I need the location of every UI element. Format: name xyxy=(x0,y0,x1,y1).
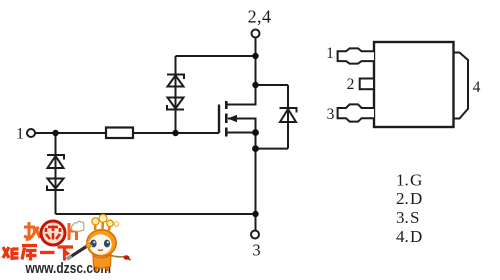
svg-text:2,4: 2,4 xyxy=(248,7,272,27)
svg-text:3.: 3. xyxy=(396,208,409,227)
svg-text:1: 1 xyxy=(326,45,334,62)
svg-text:S: S xyxy=(410,208,419,227)
svg-text:4.: 4. xyxy=(396,227,409,246)
svg-text:1: 1 xyxy=(16,125,24,142)
svg-text:2.: 2. xyxy=(396,189,409,208)
svg-text:3: 3 xyxy=(327,106,335,123)
svg-text:D: D xyxy=(410,227,422,246)
svg-text:G: G xyxy=(410,170,422,189)
svg-text:2: 2 xyxy=(347,76,355,93)
svg-text:D: D xyxy=(410,189,422,208)
svg-text:1.: 1. xyxy=(396,170,409,189)
svg-text:4: 4 xyxy=(473,79,481,96)
svg-text:3: 3 xyxy=(252,241,260,260)
